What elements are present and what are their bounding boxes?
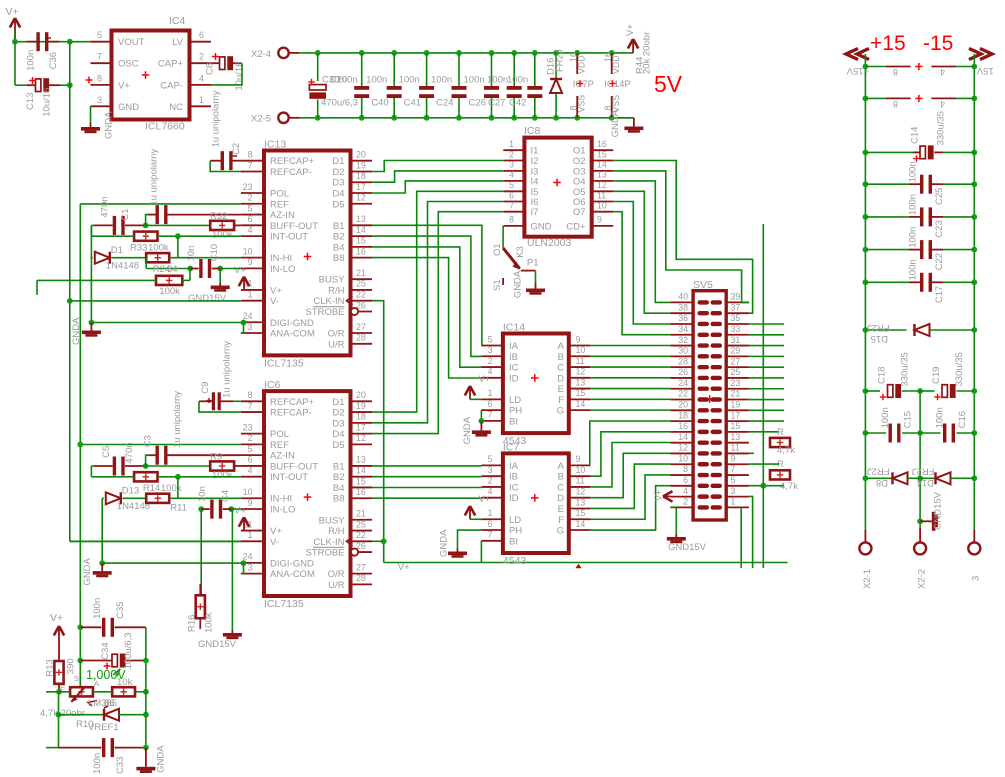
svg-text:28: 28 <box>356 573 366 583</box>
svg-text:A: A <box>558 461 565 472</box>
svg-text:D1: D1 <box>332 397 344 408</box>
svg-text:IC6: IC6 <box>264 379 281 391</box>
IC14 pin 3 IB <box>481 355 503 357</box>
svg-text:7: 7 <box>248 401 253 411</box>
IC13 pin 16 B8 <box>351 257 373 259</box>
SV5 pin 5 <box>726 485 749 487</box>
svg-text:O7: O7 <box>573 207 586 218</box>
SV5 pin 6 <box>670 485 693 487</box>
svg-text:B1: B1 <box>333 221 345 232</box>
capacitor C36 100n <box>36 32 39 51</box>
svg-text:REFCAP+: REFCAP+ <box>270 397 315 408</box>
svg-text:R9: R9 <box>210 452 222 463</box>
svg-text:16: 16 <box>356 487 366 497</box>
svg-text:1: 1 <box>731 497 736 507</box>
svg-text:G: G <box>557 406 564 417</box>
SV5 pin 34 <box>670 334 693 336</box>
wire IC8 O2 to SV5 37 <box>613 161 752 314</box>
svg-text:B2: B2 <box>333 472 345 483</box>
svg-text:7: 7 <box>488 410 493 420</box>
svg-text:C: C <box>557 482 564 493</box>
wire IC13 B2 to IC14 IB <box>372 236 481 356</box>
svg-text:1: 1 <box>488 388 493 398</box>
svg-text:10: 10 <box>243 487 253 497</box>
IC4 ICL7660 <box>112 31 190 120</box>
svg-text:O1: O1 <box>492 243 503 256</box>
resistor R16 100k vertical <box>199 584 201 596</box>
wire GND15V rail from IC4 VOUT <box>69 42 71 542</box>
svg-text:REFCAP+: REFCAP+ <box>270 156 315 167</box>
svg-text:13: 13 <box>356 455 366 465</box>
diode D1 1N4148 <box>95 252 110 264</box>
svg-text:4: 4 <box>509 170 514 180</box>
wire SV5 9 <box>749 463 779 465</box>
wire IC6 D2 to IC8 I5 <box>372 191 503 412</box>
svg-text:28: 28 <box>356 333 366 343</box>
svg-text:21: 21 <box>356 268 366 278</box>
svg-text:+15V: +15V <box>846 65 869 76</box>
SV5 pin 16 <box>670 431 693 433</box>
resistor R15 10k <box>112 687 135 696</box>
connector SV5 <box>693 291 726 520</box>
IC8 pin 5 I5 <box>503 190 524 192</box>
svg-text:32: 32 <box>678 335 688 345</box>
svg-text:D: D <box>557 373 564 384</box>
svg-text:100k: 100k <box>148 242 169 253</box>
svg-text:4543: 4543 <box>503 555 527 567</box>
svg-text:100n: 100n <box>399 75 420 86</box>
wire IC13 D2 to IC8 I2 <box>372 161 503 172</box>
IC13 pin 26 STROBE <box>351 310 373 312</box>
SV5 pin 40 <box>670 301 693 303</box>
svg-text:4,7k 20obr: 4,7k 20obr <box>40 708 85 719</box>
svg-text:13: 13 <box>597 170 607 180</box>
svg-text:3: 3 <box>731 486 736 496</box>
IC8 pin 10 O7 <box>592 211 614 213</box>
svg-text:REF: REF <box>270 199 289 210</box>
svg-text:1: 1 <box>488 508 493 518</box>
IC6 pin 7 REFCAP- <box>241 411 264 413</box>
svg-text:15: 15 <box>576 508 586 518</box>
svg-text:O4: O4 <box>573 176 586 187</box>
wire IC6 B to IC7 <box>372 497 481 499</box>
svg-text:VOUT: VOUT <box>118 37 145 48</box>
svg-text:ID: ID <box>509 493 519 504</box>
svg-text:PH: PH <box>509 526 522 537</box>
svg-text:12: 12 <box>356 193 366 203</box>
svg-text:11: 11 <box>597 190 606 200</box>
svg-text:X2-4: X2-4 <box>251 49 271 60</box>
svg-text:100u/6,3: 100u/6,3 <box>123 632 134 669</box>
svg-text:3: 3 <box>97 95 102 105</box>
SV5 pin 3 <box>726 496 749 498</box>
wire IC13 B1 to IC14 IA <box>372 225 482 345</box>
svg-text:OSC: OSC <box>118 59 139 70</box>
svg-text:10: 10 <box>576 465 586 475</box>
svg-text:28: 28 <box>678 356 688 366</box>
svg-text:2: 2 <box>488 356 493 366</box>
capacitor C34 100u/6,3 electrolytic <box>112 654 117 667</box>
svg-text:27: 27 <box>356 562 366 572</box>
svg-text:20k 20obr: 20k 20obr <box>642 32 653 74</box>
SV5 pin 30 <box>670 355 693 357</box>
svg-text:15V: 15V <box>976 65 994 76</box>
svg-text:16: 16 <box>597 139 607 149</box>
svg-text:24: 24 <box>678 378 688 388</box>
svg-text:10n: 10n <box>197 486 208 502</box>
IC13 pin 14 B2 <box>351 235 373 237</box>
svg-text:14: 14 <box>576 519 586 529</box>
svg-text:VSS: VSS <box>611 95 621 113</box>
svg-text:10k: 10k <box>117 677 133 688</box>
ground GNDA at IC4 GND <box>90 106 92 122</box>
svg-text:7: 7 <box>97 52 102 62</box>
IC13 pin 25 R/H <box>351 289 373 291</box>
IC8 pin 3 I3 <box>503 170 524 172</box>
svg-text:6: 6 <box>248 214 253 224</box>
svg-text:D1: D1 <box>111 245 123 256</box>
svg-text:12: 12 <box>576 367 586 377</box>
svg-text:3: 3 <box>248 562 253 572</box>
svg-text:D15: D15 <box>871 333 888 344</box>
IC8 pin 15 O2 <box>592 160 614 162</box>
wire C2 to pin7 <box>210 161 241 172</box>
svg-text:ICL7135: ICL7135 <box>264 598 304 610</box>
IC6 pin 6 BUFF-OUT <box>241 465 264 467</box>
svg-text:C16: C16 <box>957 411 968 428</box>
IC14 pin 12 D <box>569 377 591 379</box>
svg-text:4: 4 <box>683 486 688 496</box>
IC6 pin 19 D2 <box>351 411 373 413</box>
svg-text:11: 11 <box>731 443 740 453</box>
svg-text:R/H: R/H <box>328 285 345 296</box>
svg-text:23: 23 <box>243 182 253 192</box>
svg-text:1: 1 <box>248 290 253 300</box>
svg-text:I2: I2 <box>531 156 539 167</box>
wire -15 rail <box>973 54 975 531</box>
svg-text:26: 26 <box>678 367 688 377</box>
svg-text:13: 13 <box>576 497 586 507</box>
wire IC6 B to IC7 <box>372 465 481 467</box>
svg-text:18: 18 <box>356 412 366 422</box>
svg-text:B8: B8 <box>333 253 345 264</box>
IC13 STROBE bubble pin26 <box>351 308 358 315</box>
svg-text:20: 20 <box>356 150 366 160</box>
svg-text:8: 8 <box>893 67 898 77</box>
IC13 pin 13 B1 <box>351 224 373 226</box>
svg-text:R33: R33 <box>130 242 147 253</box>
svg-text:IN-HI: IN-HI <box>270 253 292 264</box>
resistor R11 100k <box>146 494 169 503</box>
IC13 pin 1 V- <box>241 300 264 302</box>
svg-text:390: 390 <box>66 658 77 674</box>
opamp power row 1 <box>863 64 869 70</box>
svg-text:6: 6 <box>199 30 204 40</box>
svg-text:C40: C40 <box>371 98 388 109</box>
IC7 pin 13 E <box>569 507 591 509</box>
svg-text:D3: D3 <box>332 418 344 429</box>
svg-text:2: 2 <box>509 149 514 159</box>
svg-text:D4: D4 <box>332 429 344 440</box>
svg-text:330u/35: 330u/35 <box>954 352 965 386</box>
svg-text:ANA-COM: ANA-COM <box>270 329 315 340</box>
svg-text:100n: 100n <box>337 75 358 86</box>
svg-text:7: 7 <box>509 201 514 211</box>
SV5 pin 28 <box>670 366 693 368</box>
trimmer R10 4,7k 20obr <box>70 687 93 696</box>
SV5 pin 20 <box>670 409 693 411</box>
svg-text:LD: LD <box>509 515 521 526</box>
svg-text:C17: C17 <box>934 286 945 303</box>
svg-text:C: C <box>557 363 564 374</box>
wire IC6 D3 to IC8 I6 <box>372 202 503 423</box>
wire IC14 A-G to SV5 32..20 <box>590 345 670 347</box>
wire IC7 output 0 to SV5 <box>590 421 671 465</box>
IC8 pin 14 O3 <box>592 170 614 172</box>
svg-text:1N4148: 1N4148 <box>106 261 139 272</box>
svg-text:18: 18 <box>678 410 688 420</box>
svg-text:1u unipolarny: 1u unipolarny <box>211 90 222 147</box>
SV5 pin 21 <box>726 399 749 401</box>
SV5 pin 10 <box>670 463 693 465</box>
svg-text:34: 34 <box>167 264 178 275</box>
wire left rail <box>46 691 70 693</box>
wire IC7 output 1 to SV5 <box>590 432 670 476</box>
IC4 pin 3 GND <box>91 105 112 107</box>
IC6 pin 12 D5 <box>351 443 373 445</box>
svg-text:1: 1 <box>199 95 204 105</box>
capacitor C5 470n <box>113 457 116 476</box>
svg-text:470n: 470n <box>100 196 111 217</box>
IC6 pin 15 B4 <box>351 486 373 488</box>
IC14 pin 6 PH <box>481 409 503 411</box>
svg-text:25: 25 <box>356 519 366 529</box>
ground GNDA analog <box>99 560 105 566</box>
SV5 pin 18 <box>670 420 693 422</box>
svg-text:U/R: U/R <box>328 339 345 350</box>
wire IC13 B4 to IC14 IC <box>372 247 481 367</box>
IC6 pin 5 AZ-IN <box>241 454 264 456</box>
svg-text:V-: V- <box>270 296 279 307</box>
svg-text:9: 9 <box>576 334 581 344</box>
svg-text:10: 10 <box>243 246 253 256</box>
IC6 pin 13 B1 <box>351 465 373 467</box>
svg-text:C4: C4 <box>220 490 231 502</box>
IC6 pin 23 POL <box>241 433 264 435</box>
IC7 pin 3 IB <box>481 475 503 477</box>
svg-text:10u/16: 10u/16 <box>234 62 245 91</box>
svg-text:F: F <box>558 515 564 526</box>
IC13 pin 28 U/R <box>351 343 373 345</box>
svg-text:2: 2 <box>199 52 204 62</box>
wire IC7 BI to bus <box>480 541 482 563</box>
IC6 pin 27 O/R <box>351 573 373 575</box>
ground GND15V at C10 <box>219 269 221 284</box>
svg-text:4: 4 <box>199 73 204 83</box>
svg-text:24: 24 <box>243 311 253 321</box>
svg-text:FR2J: FR2J <box>912 466 935 477</box>
svg-text:C26: C26 <box>469 98 486 109</box>
wire REF rail 1.000V <box>79 204 81 688</box>
svg-text:100n: 100n <box>366 75 387 86</box>
wire SV5 5 with junction <box>749 485 784 487</box>
svg-text:STROBE: STROBE <box>305 307 344 318</box>
svg-text:AZ-IN: AZ-IN <box>270 210 295 221</box>
svg-text:C25: C25 <box>934 188 945 205</box>
svg-text:B: B <box>558 352 564 363</box>
svg-text:ANA-COM: ANA-COM <box>270 569 315 580</box>
resistor R24 100k <box>156 276 182 285</box>
svg-text:INT-OUT: INT-OUT <box>270 232 308 243</box>
SV5 pin 8 <box>670 474 693 476</box>
wire GND bottom rail <box>299 117 633 119</box>
wire IC13 B8 to IC14 ID <box>372 258 481 378</box>
svg-text:4: 4 <box>248 465 253 475</box>
SV5 pin 26 <box>670 377 693 379</box>
svg-text:20: 20 <box>356 390 366 400</box>
svg-text:5: 5 <box>509 180 514 190</box>
SV5 pin 4 <box>670 496 693 498</box>
capacitor C30 470u electrolytic <box>315 50 321 56</box>
V+ arrow at SV5 4 <box>663 495 670 497</box>
wire IC13 D4 to IC8 I4 <box>372 181 503 193</box>
svg-text:12: 12 <box>597 180 607 190</box>
SV5 pin 23 <box>726 388 749 390</box>
svg-text:23: 23 <box>243 422 253 432</box>
svg-text:330u/35: 330u/35 <box>936 111 947 145</box>
svg-text:8: 8 <box>248 150 253 160</box>
svg-text:B1: B1 <box>333 461 345 472</box>
IC6 pin 11 V+ <box>241 530 264 532</box>
svg-text:PH: PH <box>509 406 522 417</box>
svg-text:100n: 100n <box>908 259 919 280</box>
IC14 pin 5 IA <box>481 345 503 347</box>
IC6 pin 10 IN-HI <box>241 497 264 499</box>
svg-text:D: D <box>557 493 564 504</box>
svg-text:GND15V: GND15V <box>188 293 227 304</box>
wire GND15V rail corner to IC6 V- <box>70 540 241 542</box>
svg-text:GNDA: GNDA <box>156 745 167 773</box>
SV5 pin 24 <box>670 388 693 390</box>
svg-text:4,7k: 4,7k <box>777 445 795 456</box>
svg-text:D4: D4 <box>332 189 344 200</box>
SV5 pin 11 <box>726 452 749 454</box>
svg-text:E: E <box>558 504 564 515</box>
IC8 pin 4 I4 <box>503 180 524 182</box>
IC4 pin 5 VOUT <box>91 41 112 43</box>
capacitor C19 330u/35 <box>920 390 934 392</box>
wire SV5 35..17 stubs right <box>749 323 784 325</box>
svg-text:FR2J: FR2J <box>867 466 890 477</box>
svg-text:3: 3 <box>488 465 493 475</box>
IC8 pin 8 GND <box>503 225 524 227</box>
svg-text:14: 14 <box>356 225 366 235</box>
svg-text:8: 8 <box>97 73 102 83</box>
svg-text:19: 19 <box>356 160 366 170</box>
diode VREF1 LM385 <box>59 714 105 716</box>
wire IN-HI row <box>112 257 146 259</box>
svg-text:IC14: IC14 <box>503 322 525 334</box>
svg-text:GND: GND <box>118 102 139 113</box>
wire V- row GND15V <box>67 298 73 304</box>
opamp power row 2 <box>863 96 869 102</box>
svg-text:10: 10 <box>597 201 607 211</box>
IC6 pin 14 B2 <box>351 476 373 478</box>
wire stub left edge <box>36 280 38 295</box>
IC7 pin 4 ID <box>481 497 503 499</box>
SV5 pin 1 <box>726 506 749 508</box>
svg-text:14: 14 <box>678 432 688 442</box>
svg-text:CLK-IN: CLK-IN <box>313 537 344 548</box>
svg-text:I7: I7 <box>531 207 539 218</box>
IC14 pin 13 E <box>569 388 591 390</box>
svg-text:VDD: VDD <box>577 55 587 74</box>
resistor R33 100k <box>134 232 157 241</box>
IC7 pin 5 IA <box>481 464 503 466</box>
svg-text:+15: +15 <box>870 32 906 55</box>
IC14P power pins VDD/VSS <box>609 50 615 56</box>
svg-text:V+: V+ <box>479 374 491 385</box>
chevron arrows right <box>969 49 981 60</box>
IC7 pin 12 D <box>569 497 591 499</box>
diode D16 FR2J <box>553 50 559 56</box>
svg-text:470u/6,3: 470u/6,3 <box>321 98 358 109</box>
IC14 pin 14 G <box>569 409 591 411</box>
IC14 V+ arrow at LD <box>469 388 471 399</box>
svg-text:R32: R32 <box>210 211 227 222</box>
svg-text:37: 37 <box>731 302 741 312</box>
svg-text:7: 7 <box>488 530 493 540</box>
IC7 pin 9 A <box>569 464 591 466</box>
IC6 pin 25 R/H <box>351 530 373 532</box>
svg-text:C8: C8 <box>205 63 216 75</box>
ground GND15V on middle rail <box>917 518 923 524</box>
svg-text:18: 18 <box>356 171 366 181</box>
wire INT-OUT to IN-HI <box>177 236 179 258</box>
svg-text:D3: D3 <box>332 178 344 189</box>
svg-text:GND15V: GND15V <box>198 639 237 650</box>
IC14 ground GNDA at PH/BI <box>480 410 482 421</box>
wire +5V top rail <box>318 52 633 54</box>
svg-text:CAP-: CAP- <box>160 80 183 91</box>
svg-text:A: A <box>94 679 99 688</box>
svg-text:D5: D5 <box>332 199 344 210</box>
svg-text:8: 8 <box>683 464 688 474</box>
svg-text:100n: 100n <box>487 75 508 86</box>
svg-text:CLK-IN: CLK-IN <box>313 296 344 307</box>
IC13 pin 9 IN-LO <box>241 267 264 269</box>
IC6 pin 28 U/R <box>351 583 373 585</box>
svg-text:IN-HI: IN-HI <box>270 494 292 505</box>
svg-text:O/R: O/R <box>328 569 345 580</box>
svg-text:4: 4 <box>248 225 253 235</box>
svg-text:IC14P: IC14P <box>604 79 630 90</box>
svg-text:2: 2 <box>248 193 253 203</box>
svg-text:24: 24 <box>243 552 253 562</box>
svg-text:C23: C23 <box>934 220 945 237</box>
svg-text:C5: C5 <box>101 446 112 458</box>
SV5 pin 2 <box>670 506 693 508</box>
svg-text:IB: IB <box>509 472 518 483</box>
svg-text:9: 9 <box>248 498 253 508</box>
svg-text:3: 3 <box>488 345 493 355</box>
svg-text:39: 39 <box>731 292 741 302</box>
capacitor C35 100n <box>102 618 105 637</box>
svg-text:A: A <box>558 341 565 352</box>
svg-text:22: 22 <box>356 290 366 300</box>
IC IC7 4543 <box>503 453 569 553</box>
IC IC13 ICL7135 <box>264 151 351 356</box>
